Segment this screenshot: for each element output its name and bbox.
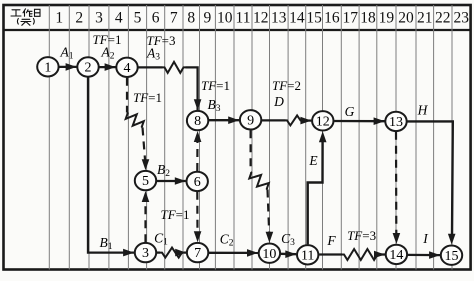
svg-text:6: 6 — [194, 175, 201, 190]
node 2 — [77, 57, 98, 76]
svg-text:13: 13 — [271, 10, 287, 27]
node 4 — [116, 58, 137, 77]
svg-text:18: 18 — [360, 10, 376, 27]
svg-text:11: 11 — [301, 248, 314, 263]
svg-text:9: 9 — [247, 113, 254, 128]
svg-text:22: 22 — [435, 10, 451, 27]
node 8 — [187, 111, 208, 130]
svg-text:15: 15 — [306, 10, 322, 27]
activity C1 arrow 3->7 with zigzag — [157, 251, 160, 253]
svg-text:7: 7 — [194, 246, 201, 261]
svg-text:2: 2 — [75, 10, 83, 27]
node 11 — [297, 245, 318, 264]
activity G arrow 12->13 — [334, 120, 384, 122]
activity A1 arrow 1->2 — [59, 66, 76, 68]
svg-text:12: 12 — [253, 10, 269, 27]
svg-text:9: 9 — [204, 10, 212, 27]
svg-text:8: 8 — [194, 114, 201, 129]
svg-text:TF=1: TF=1 — [201, 78, 230, 93]
svg-text:6: 6 — [152, 10, 160, 27]
svg-text:5: 5 — [134, 10, 142, 27]
node 14 — [386, 245, 407, 264]
header separator line — [4, 29, 471, 31]
activity B1 arrow 2->3 (down, then right) — [88, 77, 134, 252]
svg-text:14: 14 — [289, 10, 305, 27]
node 7 — [187, 243, 208, 262]
dummy arrow 3->5 dashed — [144, 198, 146, 242]
svg-text:4: 4 — [115, 10, 123, 27]
dummy arrow 4->5 dashed with zigzag — [126, 78, 128, 113]
svg-text:3: 3 — [142, 246, 149, 261]
node 9 — [240, 110, 261, 129]
svg-text:5: 5 — [142, 174, 149, 189]
node 12 — [312, 111, 333, 130]
svg-text:12: 12 — [316, 114, 330, 129]
svg-text:19: 19 — [379, 10, 395, 27]
svg-text:16: 16 — [324, 10, 340, 27]
activity B2 arrow 5->6 — [157, 180, 186, 182]
svg-text:1: 1 — [55, 10, 63, 27]
svg-text:3: 3 — [95, 10, 103, 27]
activity H arrow 13->15 (right, then down) — [407, 121, 452, 237]
svg-text:14: 14 — [389, 248, 403, 263]
activity A2 arrow 2->4 — [99, 66, 115, 68]
svg-text:23: 23 — [454, 10, 470, 27]
svg-text:10: 10 — [262, 247, 276, 262]
activity F arrow 11->14 with TF=3 zigzag — [319, 253, 342, 255]
svg-text:13: 13 — [389, 115, 403, 130]
activity D arrow 9->12 with zigzag — [262, 119, 286, 121]
activity A3 arrow 4->8 with free-float zigzag — [138, 66, 162, 68]
node 15 — [441, 246, 462, 265]
dummy arrow 6->7 dashed — [196, 192, 198, 235]
svg-text:E: E — [308, 153, 318, 168]
svg-text:H: H — [417, 103, 429, 118]
node 6 — [187, 172, 208, 191]
node 3 — [135, 243, 156, 262]
node 13 — [385, 112, 406, 131]
dummy arrow 6->8 dashed — [196, 138, 198, 171]
node 5 — [135, 171, 156, 190]
activity E arrow 11->12 (up with jog) — [308, 138, 323, 244]
svg-text:TF=1: TF=1 — [133, 90, 162, 105]
node 1 — [37, 57, 58, 76]
activity B3 arrow 8->9 — [209, 119, 239, 121]
svg-text:F: F — [326, 233, 336, 248]
dummy arrow 13->14 dashed — [395, 132, 397, 237]
svg-text:TF=2: TF=2 — [272, 78, 301, 93]
activity C3 arrow 10->11 — [281, 253, 297, 256]
svg-text:15: 15 — [445, 249, 459, 264]
svg-text:2: 2 — [85, 61, 92, 76]
svg-text:4: 4 — [124, 61, 131, 76]
svg-text:20: 20 — [398, 10, 414, 27]
svg-text:10: 10 — [217, 10, 233, 27]
dummy arrow 9->10 dashed with zigzag — [250, 130, 252, 172]
svg-text:D: D — [273, 94, 284, 109]
activity I arrow 14->15 — [408, 254, 440, 257]
svg-text:TF=3: TF=3 — [347, 228, 376, 243]
svg-text:1: 1 — [44, 60, 51, 75]
node 10 — [259, 244, 280, 263]
svg-text:TF=1: TF=1 — [160, 207, 189, 222]
svg-text:11: 11 — [236, 10, 251, 27]
svg-text:7: 7 — [170, 10, 178, 27]
activity C2 arrow 7->10 — [209, 252, 258, 254]
svg-text:21: 21 — [417, 10, 433, 27]
header day numbers 1-23 — [55, 10, 469, 27]
header label 工作日(天) drawn as strokes — [11, 9, 40, 26]
svg-text:G: G — [345, 104, 355, 119]
svg-text:17: 17 — [342, 10, 358, 27]
svg-text:8: 8 — [187, 10, 195, 27]
